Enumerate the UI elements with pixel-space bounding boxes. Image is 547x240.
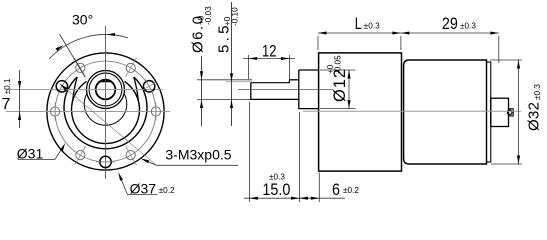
svg-text:±0.1: ±0.1 (3, 78, 12, 94)
svg-text:6: 6 (332, 180, 340, 199)
svg-text:±0.3: ±0.3 (533, 84, 542, 100)
svg-text:5.5: 5.5 (215, 26, 232, 54)
svg-text:-0.10: -0.10 (230, 7, 239, 26)
svg-text:12: 12 (262, 42, 277, 61)
svg-text:30°: 30° (72, 12, 93, 28)
svg-text:Ø32: Ø32 (526, 102, 543, 131)
svg-text:-0.05: -0.05 (334, 55, 343, 74)
svg-text:L: L (355, 14, 362, 33)
svg-text:±0.2: ±0.2 (159, 186, 175, 195)
svg-text:±0.3: ±0.3 (364, 22, 380, 31)
svg-text:±0.3: ±0.3 (269, 173, 285, 182)
svg-text:±0.2: ±0.2 (343, 186, 359, 195)
svg-text:3-M3xp0.5: 3-M3xp0.5 (165, 147, 231, 163)
svg-text:7: 7 (2, 96, 11, 113)
svg-text:15.0: 15.0 (262, 180, 290, 199)
svg-text:29: 29 (442, 14, 458, 33)
svg-text:±0.3: ±0.3 (460, 22, 476, 31)
svg-text:-0.03: -0.03 (204, 6, 213, 25)
svg-text:Ø37: Ø37 (130, 181, 157, 197)
